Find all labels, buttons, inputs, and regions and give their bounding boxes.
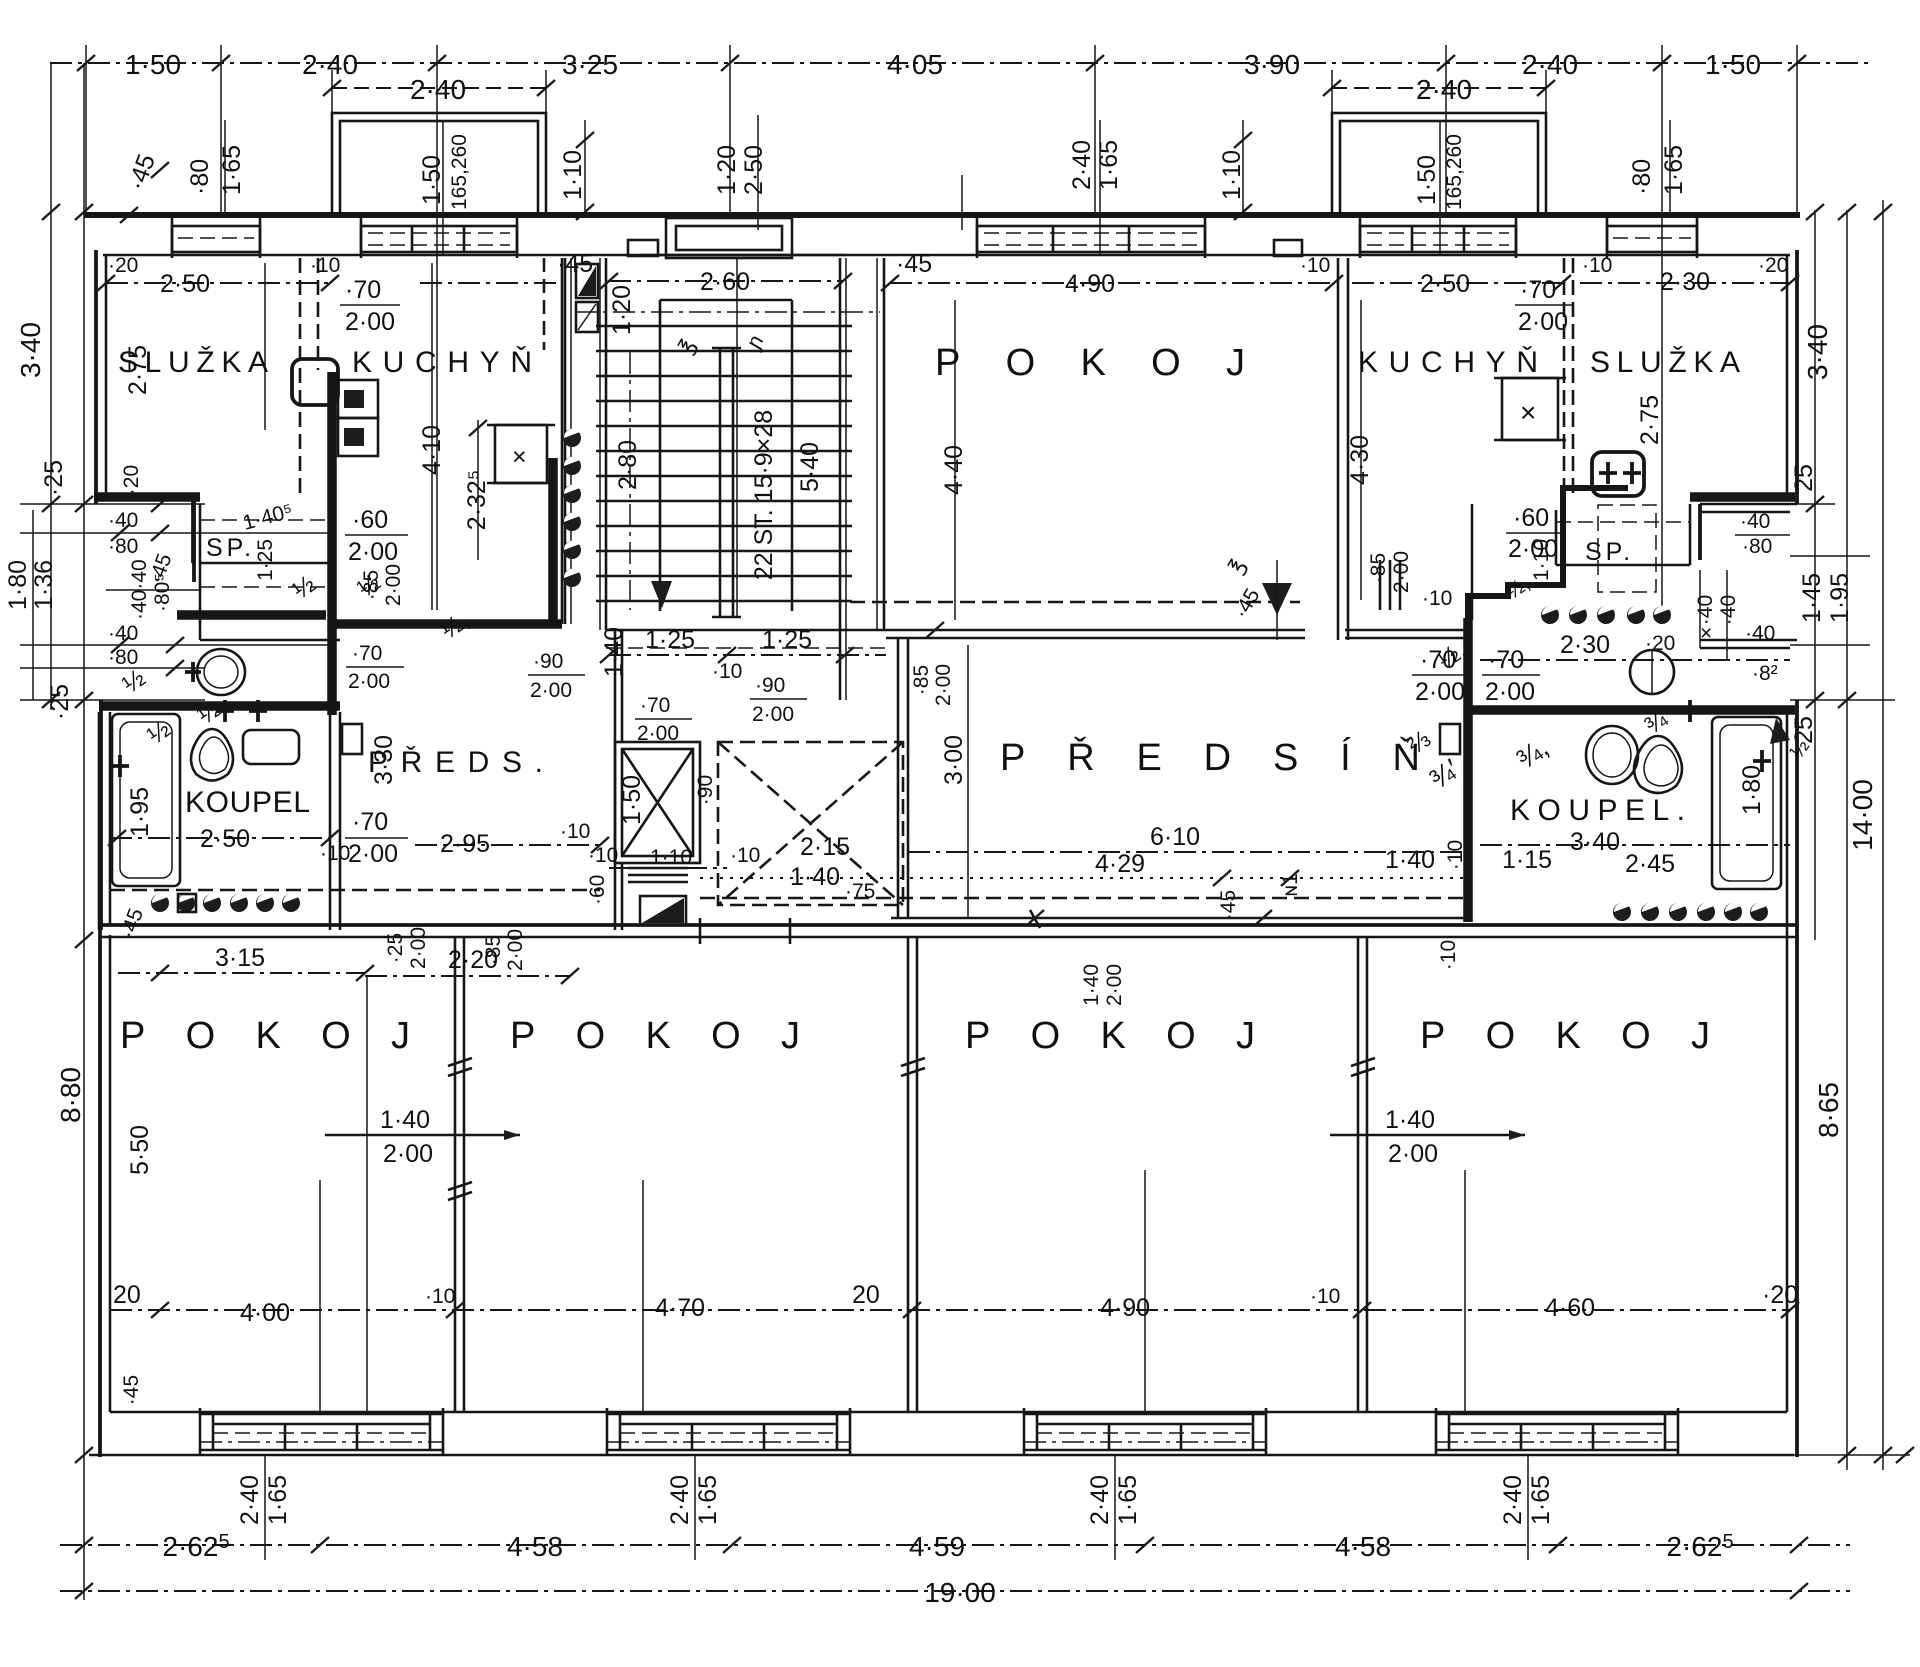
svg-text:2·80: 2·80 [614,440,642,490]
bottom band bottom wall inner [110,1411,1787,1414]
sink sluzka R [1592,452,1644,496]
door rect symbol left corridor [342,724,362,754]
svg-text:·85: ·85 [1367,553,1390,583]
svg-text:6·10: 6·10 [1150,823,1200,851]
window kuchyn R (under balcony) [1360,218,1516,258]
taps R [1681,700,1699,722]
svg-text:165,260: 165,260 [1443,134,1466,210]
bathtub [112,714,180,886]
svg-text:·40: ·40 [1717,595,1740,625]
landing lines under stairs [606,629,886,632]
kuchyn R dims [1352,282,1562,284]
svg-text:·10: ·10 [320,842,350,865]
stair shaft left wall (45 thick) [564,258,567,624]
left chain vertical lines [50,63,52,710]
svg-text:2·40: 2·40 [236,1475,264,1525]
svg-text:2·00: 2·00 [1388,1140,1438,1168]
kuchyn right wall [561,258,564,624]
svg-text:·10: ·10 [730,844,760,867]
STAIRS [528,250,932,930]
down arrow at stair bottom [651,581,672,608]
svg-text:2·00: 2·00 [348,538,398,566]
small dashed door arcs region sluzka bottom [200,586,330,588]
svg-text:1·65: 1·65 [1527,1475,1555,1525]
svg-text:1·50: 1·50 [125,49,181,80]
svg-text:2·45: 2·45 [1625,850,1675,878]
black triangle flag right [1262,583,1292,615]
svg-text:3·00: 3·00 [940,735,968,785]
svg-text:·25: ·25 [40,460,68,496]
pokoj dim 4.90 [890,282,1334,284]
dashed mid line of stairwell [575,311,880,313]
svg-text:·45: ·45 [120,1375,143,1405]
svg-text:2·40: 2·40 [410,74,466,105]
svg-text:KUCHYŇ: KUCHYŇ [1358,346,1548,379]
left outer wall bathroom part [99,700,103,930]
svg-text:2·00: 2·00 [530,679,572,702]
svg-text:·90: ·90 [694,775,717,805]
ROOMS_TOP_LEFT [94,254,562,942]
svg-text:SP.: SP. [1585,538,1634,566]
right wall recess between 504-700 [1700,503,1797,506]
toilet koupel L bulb [191,729,233,781]
svg-text:·10: ·10 [1310,1285,1340,1308]
inner flight boundary [660,299,792,302]
svg-text:·10: ·10 [1300,254,1330,277]
svg-text:2·00: 2·00 [1390,551,1413,593]
svg-text:2·60: 2·60 [700,268,750,296]
svg-text:·10: ·10 [1444,840,1467,870]
window 1 [200,1413,443,1416]
svg-text:2·95: 2·95 [440,830,490,858]
svg-text:1·65: 1·65 [694,1475,722,1525]
circles row under SP R [1541,606,1671,624]
svg-text:2·00: 2·00 [932,664,955,706]
1.80 / 1.36 rotated [32,510,34,700]
koupel left inner wall [98,712,101,930]
svg-text:ɴ1: ɴ1 [1279,873,1302,896]
svg-text:SLUŽKA: SLUŽKA [1590,346,1750,379]
6.10 / 4.29 dim lines [908,851,1468,853]
center rail [719,348,722,617]
window pokoj top middle [977,218,1205,258]
svg-text:2·40: 2·40 [302,49,358,80]
svg-text:4·90: 4·90 [1065,270,1115,298]
balcony right [1332,113,1546,215]
witness verticals to bottom windows [319,1180,321,1412]
room top inner line [103,254,1790,257]
svg-text:·10: ·10 [712,660,742,683]
sluzka/kuchyn partition dashed [299,258,302,500]
svg-text:KOUPEL: KOUPEL [185,786,320,819]
plumbing thick wall kuchyn [327,372,337,715]
thick black wall stub left of circles [548,458,558,624]
separation wall between top rooms band and bottom band [101,923,1797,927]
total chain 19.00 y=1591 [60,1590,1850,1592]
svg-text:·80: ·80 [1628,159,1656,195]
svg-text:25: 25 [1790,464,1818,492]
hatched circles column left of stairs [563,429,581,587]
black drop arrow right bath [1770,718,1790,744]
svg-text:2·40: 2·40 [1499,1475,1527,1525]
svg-text:2·30: 2·30 [1560,631,1610,659]
svg-text:2·40: 2·40 [1522,49,1578,80]
svg-text:·20: ·20 [108,254,138,277]
svg-text:1·65: 1·65 [1095,140,1123,190]
dots row under koupel R [1613,903,1768,921]
dim 2.60 [609,280,843,282]
washbasin WC L [197,649,245,695]
svg-text:KUCHYŇ: KUCHYŇ [352,346,542,379]
OUTER_WALLS [84,215,1800,1457]
svg-text:·10: ·10 [588,844,618,867]
svg-text:1·50: 1·50 [618,775,646,825]
CHAINS_LEFT [4,63,330,1600]
double tick joint marks on partitions [448,1058,472,1066]
svg-text:·80: ·80 [186,159,214,195]
svg-text:1·20: 1·20 [608,285,636,335]
svg-text:·20: ·20 [1762,1281,1798,1309]
sluzka R dims [1580,282,1790,284]
svg-text:5·50: 5·50 [126,1125,154,1175]
svg-text:1·50: 1·50 [1705,49,1761,80]
svg-text:1·20: 1·20 [713,145,741,195]
stair treads [596,326,852,601]
predsin left wall [897,638,900,918]
svg-text:3·40: 3·40 [15,322,46,378]
CHAINS_TOP [50,45,1870,610]
svg-text:2·40: 2·40 [1068,140,1096,190]
chain ticks [77,55,95,71]
dashed line above predsin wall [850,601,1300,604]
svg-text:2·00: 2·00 [348,670,390,693]
svg-text:·10: ·10 [560,820,590,843]
washbasin R [1586,726,1638,784]
svg-text:4·58: 4·58 [1335,1531,1391,1562]
svg-text:4·58: 4·58 [507,1531,563,1562]
svg-text:1·10: 1·10 [650,846,692,869]
small wall marks [926,622,944,638]
kuchynR / sluzkaR partition dashed [1563,258,1566,500]
2.30 dim koupel R [1480,659,1790,661]
dim row y=283: 2.50 etc [106,282,330,284]
svg-text:4·60: 4·60 [1545,1294,1595,1322]
svg-text:1·95: 1·95 [126,787,154,837]
svg-text:1·10: 1·10 [1530,539,1553,581]
pokoj / kuchynR partition [1337,258,1340,640]
svg-text:2·40: 2·40 [1086,1475,1114,1525]
svg-text:1·65: 1·65 [264,1475,292,1525]
svg-text:1·10: 1·10 [559,150,587,200]
koupel R thick plumbing walls [1463,618,1473,922]
window 3 [1024,1413,1266,1416]
ROOMS_TOP_RIGHT [881,254,1814,922]
taps crosses on bath wall [216,700,234,722]
door openings in band top wall [699,918,702,944]
svg-text:22 ST. 15·9×28: 22 ST. 15·9×28 [750,410,778,580]
svg-text:3·25: 3·25 [562,49,618,80]
svg-text:165,260: 165,260 [448,134,471,210]
witness verticals for rotated dims [224,120,226,215]
door opening rect right corridor [1440,724,1460,754]
partitions between pokoj rooms [454,937,457,1412]
window sluzka L [172,218,260,258]
corridor bottom dashed lines [110,889,600,892]
2.95 dim [415,844,600,846]
svg-text:1·25: 1·25 [762,626,812,654]
svg-text:·80⁵: ·80⁵ [151,573,174,612]
svg-text:·40: ·40 [1694,595,1717,625]
svg-text:14·00: 14·00 [1847,779,1878,851]
left outer wall bottom band [98,930,102,1457]
predsin top wall (double) [886,629,1305,632]
svg-text:1·40: 1·40 [1385,846,1435,874]
svg-text:·8²: ·8² [1752,662,1778,685]
svg-text:3·30: 3·30 [370,735,398,785]
stair shaft right wall [839,258,842,700]
sink sluzka/kuchyn wall [292,359,338,405]
svg-text:2·00: 2·00 [1485,678,1535,706]
svg-text:1·25: 1·25 [254,539,277,581]
CHAINS_RIGHT [1790,200,1914,1470]
svg-text:·40: ·40 [1745,622,1775,645]
svg-text:4·90: 4·90 [1100,1294,1150,1322]
stove kuchyn L with X [495,425,547,483]
toilet koupel L [243,730,299,764]
entrance arrow black triangle bottom [640,896,686,925]
double sink kuchyn [338,380,378,418]
svg-text:·25: ·25 [46,684,74,720]
svg-text:1·15: 1·15 [1502,846,1552,874]
svg-text:4·59: 4·59 [909,1531,965,1562]
svg-text:·60: ·60 [1513,504,1549,532]
svg-text:3·90: 3·90 [1244,49,1300,80]
dots row under koupel [151,894,300,912]
dashed X room (vestibule) [718,742,903,905]
window sluzka R [1607,218,1697,258]
svg-text:2·50: 2·50 [200,825,250,853]
svg-text:·10: ·10 [1582,254,1612,277]
rotated 2.40/1.65 under bottom windows [236,1455,1555,1560]
WINDOWS_TOP [172,113,1697,258]
22 marks near stairs right wall [1379,560,1382,610]
svg-text:2·00: 2·00 [383,1140,433,1168]
svg-text:2·50: 2·50 [740,145,768,195]
left apartment corridor/pokoj wall opening marks [329,712,332,930]
svg-text:·85: ·85 [910,665,933,695]
svg-text:1·10: 1·10 [1218,150,1246,200]
svg-text:·20: ·20 [120,465,143,495]
svg-text:·25: ·25 [384,933,407,963]
svg-text:4·00: 4·00 [240,1299,290,1327]
svg-text:20: 20 [852,1281,880,1309]
svg-text:·10: ·10 [310,254,340,277]
svg-text:1·45: 1·45 [1798,573,1826,623]
svg-text:1·65: 1·65 [1660,145,1688,195]
lift shaft [615,742,700,863]
sp room interior lines [177,610,326,620]
dashed rows lower corridor [700,897,1468,900]
svg-text:2·00: 2·00 [382,564,405,606]
svg-text:2·00: 2·00 [407,927,430,969]
svg-text:3·15: 3·15 [215,944,265,972]
svg-text:1·95: 1·95 [1826,573,1854,623]
svg-text:2·75: 2·75 [124,345,152,395]
svg-text:2·40: 2·40 [1416,74,1472,105]
CHAINS_BOTTOM [60,1455,1850,1608]
corridor bottom walls double [891,917,1468,920]
svg-text:·90: ·90 [533,650,563,673]
svg-text:·85: ·85 [482,935,505,965]
svg-text:2·32⁵: 2·32⁵ [463,470,491,530]
left outer wall top band (sluzka) [94,250,98,504]
witness verticals from top wall to chain [85,45,87,215]
svg-text:·90: ·90 [755,674,785,697]
svg-text:1·50: 1·50 [1413,155,1441,205]
svg-text:1·80: 1·80 [1738,765,1766,815]
svg-text:1·25: 1·25 [645,626,695,654]
flue symbols left of shaft [576,264,598,298]
svg-text:·70: ·70 [1520,276,1556,304]
CORRIDORS [110,551,1540,930]
right chain verticals [1814,210,1816,940]
svg-text:·20: ·20 [1758,254,1788,277]
BAND_BOTTOM [110,918,1799,1456]
svg-text:SP.: SP. [206,534,255,562]
toilet circle with flag koupel R top [1630,650,1674,694]
svg-text:3·40: 3·40 [1802,324,1833,380]
balcony left dim 2.40 [332,87,546,89]
svg-text:·40: ·40 [108,509,138,532]
svg-text:·80: ·80 [1742,535,1772,558]
lift dim 1.10 [609,867,727,869]
svg-text:×: × [1520,397,1536,428]
balcony right dim 2.40 [1332,87,1546,89]
sluzka bottom thick wall [94,492,200,502]
window 4 [1436,1413,1678,1416]
svg-text:·70: ·70 [640,694,670,717]
lower dim row y=1310 [110,1309,1790,1311]
sp room left wall [191,497,195,563]
svg-text:2·50: 2·50 [1420,270,1470,298]
svg-text:2·00: 2·00 [504,929,527,971]
svg-text:·70: ·70 [352,808,388,836]
small dim block outside bathroom [20,503,205,505]
room-width chain y=1545 [60,1544,1850,1546]
svg-text:4·40: 4·40 [940,445,968,495]
SP R walls stepped thick [1468,488,1628,628]
svg-text:2·40: 2·40 [666,1475,694,1525]
svg-text:·40: ·40 [1740,510,1770,533]
svg-text:2·00: 2·00 [752,703,794,726]
window 2 [607,1413,850,1416]
svg-text:1·40: 1·40 [1385,1106,1435,1134]
svg-text:19·00: 19·00 [924,1577,996,1608]
svg-text:4·05: 4·05 [887,49,943,80]
kuchyn bottom thick wall [332,619,562,629]
svg-text:2·00: 2·00 [1103,964,1126,1006]
svg-text:8·65: 8·65 [1813,1082,1844,1138]
svg-text:2·00: 2·00 [1415,678,1465,706]
svg-text:2·50: 2·50 [160,270,210,298]
stove kuchyn R [1502,378,1558,440]
svg-text:4·30: 4·30 [1346,435,1374,485]
svg-text:2·00: 2·00 [348,840,398,868]
svg-text:1·40: 1·40 [380,1106,430,1134]
svg-text:·10: ·10 [1437,940,1460,970]
svg-text:1·65: 1·65 [218,145,246,195]
svg-text:·60: ·60 [352,506,388,534]
svg-text:·70: ·70 [1488,646,1524,674]
svg-text:·70: ·70 [352,642,382,665]
bathtub R [1712,717,1781,889]
svg-text:2·00: 2·00 [1518,308,1568,336]
window kuchyn L (under balcony) [361,218,517,258]
svg-text:2·15: 2·15 [800,833,850,861]
bath top thick wall [99,701,340,711]
svg-text:1·50: 1·50 [418,155,446,205]
top dimension chain line [50,62,1870,64]
svg-text:1·65: 1·65 [1114,1475,1142,1525]
svg-text:·10: ·10 [425,1285,455,1308]
svg-text:×: × [1700,622,1712,645]
top outer wall [84,212,1800,218]
svg-text:20: 20 [113,1281,141,1309]
svg-text:2·00: 2·00 [345,308,395,336]
svg-text:2·75: 2·75 [1636,395,1664,445]
svg-text:4·70: 4·70 [655,1294,705,1322]
sluzka R bottom thick wall [1690,492,1795,502]
bottom windows [200,1408,443,1456]
svg-text:·10: ·10 [1422,587,1452,610]
svg-text:·45: ·45 [896,250,932,278]
svg-text:8·80: 8·80 [55,1067,86,1123]
svg-text:1·80: 1·80 [4,560,32,610]
svg-text:×: × [512,443,527,471]
svg-text:1·36: 1·36 [30,560,58,610]
balcony left [332,113,546,215]
svg-text:3·40: 3·40 [1570,828,1620,856]
toilet R [1634,736,1682,793]
svg-text:KOUPEL.: KOUPEL. [1510,794,1695,827]
svg-text:·45: ·45 [1217,890,1240,920]
stair bay window [640,218,845,258]
svg-text:·75: ·75 [845,880,875,903]
dim row 1.25/1.25 [609,654,886,656]
svg-text:4·29: 4·29 [1095,850,1145,878]
dim 3.15 / 2.20 row [118,972,365,974]
koupel R dims [1480,844,1790,846]
svg-text:1·40: 1·40 [1080,964,1103,1006]
bottom outer wall line [89,1454,1794,1457]
svg-text:5·40: 5·40 [796,442,824,492]
svg-text:2·30: 2·30 [1660,268,1710,296]
right outer wall [1795,250,1799,504]
svg-text:·70: ·70 [345,276,381,304]
